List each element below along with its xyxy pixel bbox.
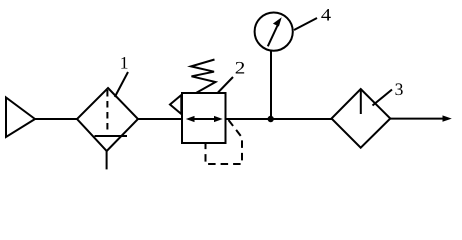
wire source to filter (35, 118, 78, 120)
svg-text:4: 4 (321, 5, 331, 25)
wire junction to gauge (270, 52, 272, 120)
filter element dashed line (106, 90, 108, 134)
svg-text:1: 1 (120, 52, 129, 72)
lubricator drip line (360, 90, 362, 114)
wire regulator to lubricator (226, 118, 332, 120)
leader line 4 (294, 18, 317, 30)
filter sump chord (95, 135, 128, 137)
gauge needle (268, 17, 282, 46)
junction node (268, 116, 274, 122)
leader line 3 (373, 90, 393, 106)
leader line 1 (115, 72, 128, 97)
leader line 2 (218, 77, 233, 93)
pilot dashed feedback line (206, 120, 243, 164)
output wire with arrow (390, 115, 452, 121)
svg-text:2: 2 (235, 57, 246, 77)
air source triangle (6, 98, 35, 138)
wire filter to regulator (138, 118, 182, 120)
pressure gauge 4 body (255, 13, 293, 51)
regulator relief vent triangle (170, 95, 181, 114)
regulator spring (191, 60, 216, 94)
lubricator 3 body (332, 89, 391, 148)
svg-text:3: 3 (395, 79, 404, 99)
filter 1 body (77, 88, 138, 151)
filter drain line (106, 151, 108, 169)
regulator 2 body (182, 93, 226, 143)
regulator flow arrow (186, 116, 223, 122)
